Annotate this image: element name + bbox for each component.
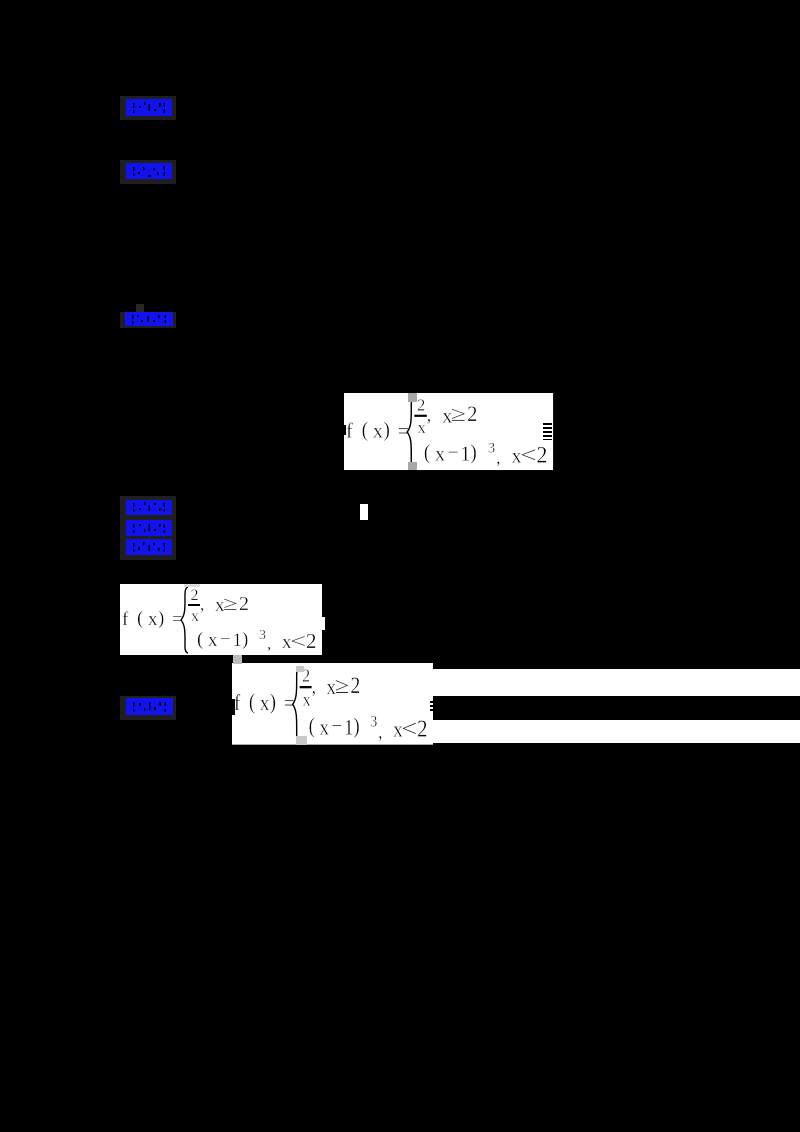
white bar B	[430, 720, 800, 743]
small white inline rect	[360, 504, 368, 520]
formula box 3	[232, 663, 433, 745]
label box 2	[120, 160, 176, 184]
formula box 2	[120, 584, 322, 656]
label box 1	[120, 96, 176, 120]
label box 3	[120, 312, 176, 328]
label box 4	[120, 696, 176, 720]
stacked labels box	[120, 496, 176, 560]
formula box 1	[344, 393, 553, 470]
gray mark above box3 top-left	[233, 655, 242, 664]
label 3 small tab	[136, 304, 144, 312]
white notch right of box2	[322, 617, 325, 630]
white bar A right of box3	[432, 669, 800, 696]
